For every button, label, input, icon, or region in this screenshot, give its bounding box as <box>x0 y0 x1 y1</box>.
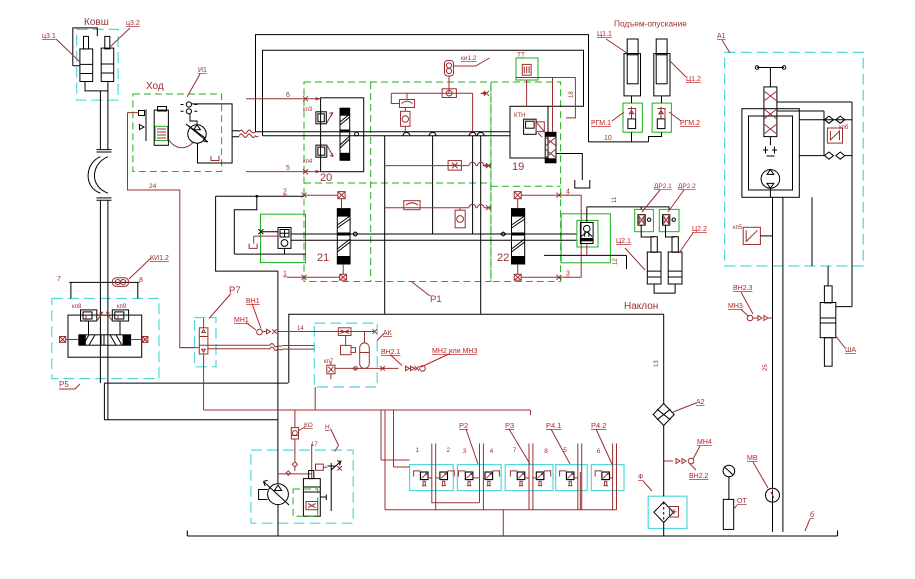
svg-text:21: 21 <box>317 252 329 264</box>
svg-text:4: 4 <box>566 189 570 196</box>
svg-text:МН3: МН3 <box>728 303 743 310</box>
svg-text:18: 18 <box>569 91 575 98</box>
svg-text:ВН2.3: ВН2.3 <box>733 285 753 292</box>
svg-text:8: 8 <box>139 277 143 284</box>
svg-text:РГМ.1: РГМ.1 <box>591 120 611 127</box>
svg-text:7: 7 <box>513 447 517 454</box>
svg-text:6: 6 <box>286 92 290 99</box>
svg-text:ц3.2: ц3.2 <box>126 20 140 27</box>
svg-text:кп9: кп9 <box>117 304 127 310</box>
svg-text:Ход: Ход <box>146 81 164 92</box>
svg-text:РГМ.2: РГМ.2 <box>680 120 700 127</box>
svg-text:Р7: Р7 <box>229 285 241 296</box>
svg-text:Ковш: Ковш <box>84 17 109 28</box>
svg-text:6: 6 <box>597 448 601 455</box>
svg-text:24: 24 <box>149 183 157 190</box>
svg-text:МВ: МВ <box>747 455 758 462</box>
svg-text:А2: А2 <box>696 399 705 406</box>
svg-text:ТТ: ТТ <box>517 52 525 59</box>
svg-text:МН1: МН1 <box>234 317 249 324</box>
svg-text:2: 2 <box>283 189 287 196</box>
svg-text:КТН: КТН <box>514 113 526 119</box>
svg-text:1: 1 <box>283 271 287 278</box>
svg-text:Р4.2: Р4.2 <box>591 421 606 430</box>
svg-text:КИ1.2: КИ1.2 <box>150 255 169 262</box>
svg-text:ВН2.1: ВН2.1 <box>381 349 401 356</box>
svg-text:Р4.1: Р4.1 <box>546 421 561 430</box>
svg-text:ки1.2: ки1.2 <box>461 55 477 62</box>
svg-text:ВН1: ВН1 <box>246 298 260 305</box>
svg-text:ц3.1: ц3.1 <box>42 33 56 40</box>
svg-text:ОТ: ОТ <box>737 498 747 505</box>
svg-text:1: 1 <box>416 447 420 454</box>
svg-text:7: 7 <box>57 276 61 283</box>
svg-text:Р5: Р5 <box>59 380 69 389</box>
svg-text:Ф: Ф <box>638 474 643 481</box>
svg-text:11: 11 <box>612 196 618 203</box>
svg-text:кп5: кп5 <box>733 225 743 231</box>
svg-text:Ц1.1: Ц1.1 <box>597 31 612 38</box>
svg-text:А1: А1 <box>717 33 726 40</box>
svg-text:кпб: кпб <box>839 125 849 131</box>
svg-text:12: 12 <box>613 258 619 265</box>
svg-text:8: 8 <box>544 448 548 455</box>
svg-text:ДР2.1: ДР2.1 <box>654 183 672 190</box>
svg-text:3: 3 <box>463 448 467 455</box>
svg-text:13: 13 <box>654 360 660 367</box>
svg-text:Ц2.2: Ц2.2 <box>692 226 707 233</box>
svg-text:25: 25 <box>763 364 769 371</box>
svg-text:Наклон: Наклон <box>624 301 658 312</box>
svg-text:МН2 или МН3: МН2 или МН3 <box>432 348 477 355</box>
svg-text:ВН2.2: ВН2.2 <box>689 473 709 480</box>
svg-text:Р3: Р3 <box>505 421 514 430</box>
svg-text:АК: АК <box>383 330 393 337</box>
svg-text:5: 5 <box>286 165 290 172</box>
svg-text:3: 3 <box>566 271 570 278</box>
svg-text:2: 2 <box>447 447 451 454</box>
svg-text:кп3: кп3 <box>303 107 313 113</box>
svg-text:Ц1.2: Ц1.2 <box>686 76 701 83</box>
svg-text:Н: Н <box>325 424 330 431</box>
svg-text:20: 20 <box>320 172 332 184</box>
svg-text:КО: КО <box>304 422 313 429</box>
svg-text:22: 22 <box>497 252 509 264</box>
svg-text:б: б <box>810 511 814 519</box>
svg-text:14: 14 <box>297 326 304 332</box>
svg-text:5: 5 <box>563 447 567 454</box>
svg-text:Подъем-опускание: Подъем-опускание <box>614 19 687 29</box>
svg-text:МН4: МН4 <box>697 439 712 446</box>
svg-text:4: 4 <box>490 448 494 455</box>
svg-text:кп4: кп4 <box>303 159 313 165</box>
svg-text:Р1: Р1 <box>430 294 442 305</box>
svg-text:ША: ША <box>845 347 856 354</box>
svg-text:17: 17 <box>311 442 318 448</box>
svg-text:кп7: кп7 <box>324 359 334 365</box>
svg-text:Р2: Р2 <box>459 421 468 430</box>
svg-text:10: 10 <box>604 135 612 142</box>
svg-text:кп8: кп8 <box>72 304 82 310</box>
svg-text:19: 19 <box>512 161 524 173</box>
svg-text:И1: И1 <box>198 67 207 74</box>
svg-text:Ц2.1: Ц2.1 <box>616 238 631 245</box>
svg-text:ДР2.2: ДР2.2 <box>678 183 696 190</box>
